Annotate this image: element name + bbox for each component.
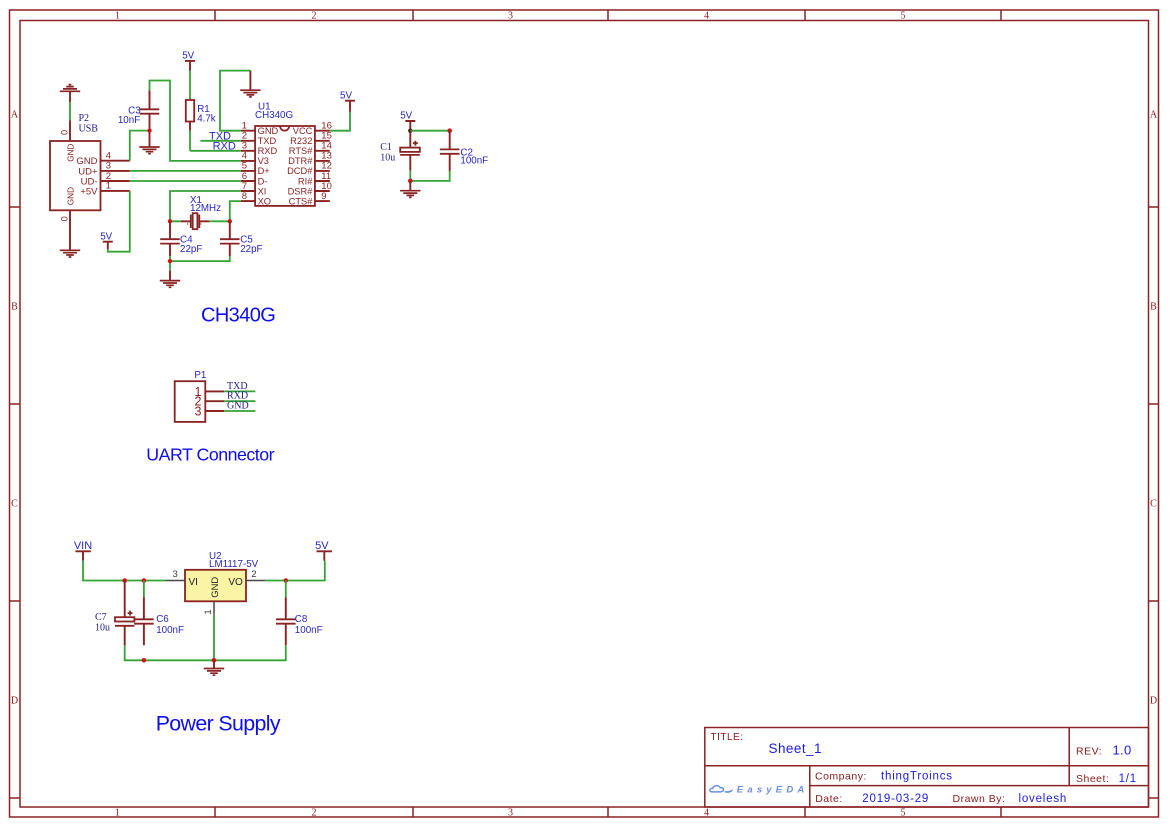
svg-text:2019-03-29: 2019-03-29 [862,793,929,805]
X1 value label [190,203,221,214]
svg-text:RI#: RI# [298,176,313,186]
svg-text:5V: 5V [400,110,412,121]
svg-text:C: C [11,499,18,510]
svg-text:10u: 10u [95,623,110,634]
wire (XI to crystal left) [170,191,241,221]
ground (below C3) [139,147,159,154]
node TXD label (P1) [227,381,248,392]
wire (C4/C5 bottoms) [170,256,230,270]
row tick marks left [10,207,21,798]
column tick marks bottom [215,807,1001,817]
svg-text:GND: GND [67,144,76,162]
svg-text:2: 2 [312,11,317,22]
capacitor C7 polarized [115,581,134,646]
wire (V3 to C3 top) [150,81,241,161]
C1 refdes label [380,142,392,153]
svg-text:1.0: 1.0 [1113,742,1132,757]
svg-text:Drawn By:: Drawn By: [953,793,1006,805]
VIN flag [74,540,92,561]
U1 refdes label [258,102,271,113]
svg-text:5V: 5V [182,50,194,61]
column numbers top [115,11,906,22]
svg-text:XO: XO [258,196,271,206]
wire (VIN down to input rail) [83,561,165,581]
row letters right [1150,110,1158,707]
svg-text:5V: 5V [315,540,329,552]
capacitor C3 [140,90,160,147]
svg-text:P2: P2 [79,113,90,124]
svg-text:2: 2 [312,808,317,819]
P1 refdes label [194,370,206,381]
svg-text:Power Supply: Power Supply [156,712,281,736]
svg-text:A: A [11,110,19,121]
svg-text:C: C [1150,499,1157,510]
ground (PSU) [204,660,224,675]
svg-text:D: D [11,696,18,707]
ground (above USB P2) [60,85,80,102]
junction (C4 bottom rail) [168,259,172,263]
regulator U2 LM1117-5V [165,569,265,615]
svg-text:1: 1 [106,181,111,192]
svg-text:5V: 5V [100,231,112,242]
svg-text:8: 8 [242,191,247,202]
node GND label (P1) [227,401,249,412]
wire (USB top pin to ground) [69,102,71,121]
svg-text:REV:: REV: [1076,746,1102,758]
svg-text:R232: R232 [290,136,312,146]
wire RXD net [190,150,241,152]
svg-text:3: 3 [508,808,513,819]
svg-text:TXD: TXD [258,136,277,146]
wire (5V rail to C2 top) [410,130,449,132]
5V flag (PSU output) [315,540,332,561]
C6 value label [156,625,184,636]
svg-text:4: 4 [704,808,709,819]
svg-text:Date:: Date: [815,793,843,805]
wire (USB pin4 GND up to C3 junction) [130,131,150,161]
svg-text:12MHz: 12MHz [190,203,221,214]
junction (crystal left) [168,219,172,223]
svg-text:C6: C6 [156,614,169,625]
Sheet value [1119,773,1137,785]
wire (XO to crystal right) [230,201,241,221]
junction (C3 bottom) [147,128,151,132]
wire (5V to R1 top) [189,71,191,101]
C4 refdes label [180,235,193,246]
node TXD label [209,130,231,142]
title label [711,732,744,743]
U2 value label [209,559,259,570]
resistor R1 [186,100,194,131]
svg-text:C7: C7 [95,612,107,623]
section title CH340G [201,305,275,327]
U2 refdes label [209,551,222,562]
C7 refdes label [95,612,107,623]
IC U1 CH340G body [255,126,315,206]
C7 value label [95,623,110,634]
5V flag (VCC) [340,90,355,111]
Date value [862,793,929,805]
row letters left [11,110,19,707]
sheet title value [769,741,822,756]
svg-text:3: 3 [195,404,202,418]
svg-text:V3: V3 [258,156,269,166]
U1 left pin numbers [242,121,247,202]
ground (U1 pin1) [240,71,260,97]
U1 right pin lines 9-16 [315,131,330,201]
Company value [881,770,953,782]
wire GND (P1 pin3) [224,410,255,412]
C5 refdes label [240,235,253,246]
REV value [1113,742,1132,757]
wire (C1 bottom to C2 bottom) [410,171,449,181]
U1 right pin names [287,126,313,206]
title block outline [705,728,1149,808]
svg-text:EasyEDA: EasyEDA [737,785,809,796]
capacitor C4 [160,221,180,256]
svg-text:CH340G: CH340G [255,110,293,121]
wire D+ net [130,170,241,172]
capacitor C2 [440,131,460,171]
svg-text:10nF: 10nF [118,115,140,126]
svg-text:C8: C8 [295,614,308,625]
svg-text:TITLE:: TITLE: [711,732,744,743]
U1 left pin names [258,126,279,206]
5V flag (USB +5V) [100,231,113,249]
svg-text:UART Connector: UART Connector [146,445,274,465]
X1 refdes label [190,195,202,206]
C6 refdes label [156,614,169,625]
C8 refdes label [295,614,308,625]
wire (U1 pin1 GND loop) [220,71,250,131]
svg-text:VIN: VIN [74,540,92,552]
svg-text:5V: 5V [340,90,352,101]
svg-text:4: 4 [704,11,709,22]
svg-text:RTS#: RTS# [289,146,313,156]
svg-text:LM1117-5V: LM1117-5V [209,559,259,570]
svg-text:USB: USB [79,124,99,135]
junction (C8 tap) [284,578,289,583]
ground (below C4/C5 rail) [160,270,180,287]
U1 value label CH340G [255,110,293,121]
column numbers bottom [115,808,906,819]
svg-text:DSR#: DSR# [288,186,314,196]
junction (C1 bottom) [408,179,413,184]
column tick marks top [215,10,1001,21]
section title UART Connector [146,445,274,465]
svg-text:B: B [1150,302,1157,313]
svg-text:RXD: RXD [258,146,278,156]
svg-text:GND: GND [258,126,279,136]
svg-text:22pF: 22pF [180,244,202,255]
Company label [815,770,867,782]
node RXD label [213,141,236,153]
svg-text:B: B [11,302,18,313]
C2 refdes label [460,147,473,158]
capacitor C8 [276,581,296,646]
USB value label [79,124,99,135]
U1 right pin numbers [321,121,332,202]
wire D- net [130,180,241,182]
svg-text:+5V: +5V [80,186,98,197]
svg-text:VCC: VCC [293,126,313,136]
C1 value label [380,153,395,164]
svg-text:P1: P1 [194,370,206,381]
Drawn By value [1019,793,1068,805]
svg-text:DCD#: DCD# [287,166,313,176]
svg-text:0: 0 [60,216,70,221]
svg-text:100nF: 100nF [295,625,323,636]
svg-text:lovelesh: lovelesh [1019,793,1068,805]
junction (crystal right) [228,219,232,223]
svg-text:DTR#: DTR# [288,156,313,166]
svg-text:Sheet:: Sheet: [1076,773,1109,785]
Drawn By label [953,793,1006,805]
svg-text:CH340G: CH340G [201,305,275,327]
C3 value label [118,115,140,126]
svg-text:VI: VI [189,577,198,588]
svg-text:10u: 10u [380,153,395,164]
svg-text:9: 9 [321,191,326,202]
wire (ground rail) [125,615,286,661]
junction (C2 top) [447,128,452,133]
wire (VO to 5V flag) [265,561,325,581]
svg-text:Sheet_1: Sheet_1 [769,741,822,756]
svg-text:RXD: RXD [213,141,236,153]
svg-text:D: D [1150,696,1157,707]
junction (C1 top, dark) [408,129,412,133]
wire RXD (P1 pin2) [224,400,255,402]
5V flag (above C1) [400,110,415,130]
C8 value label [295,625,323,636]
Sheet label [1076,773,1109,785]
svg-text:VO: VO [228,577,243,588]
svg-text:GND: GND [227,401,249,412]
svg-text:2: 2 [251,569,256,580]
P2 refdes label [79,113,90,124]
crystal X1 [170,213,230,229]
svg-text:0: 0 [60,130,70,135]
svg-text:D+: D+ [258,166,270,176]
svg-text:CTS#: CTS# [289,196,314,206]
svg-text:thingTroincs: thingTroincs [881,770,953,782]
svg-text:4.7k: 4.7k [197,114,216,125]
capacitor C6 [134,581,154,646]
5V flag (above R1) [182,50,195,70]
svg-text:D-: D- [258,176,268,186]
ground (below USB P2) [60,250,80,257]
C2 value label [460,156,488,167]
svg-text:1: 1 [115,11,120,22]
svg-text:1/1: 1/1 [1119,773,1137,785]
C3 refdes label [128,106,141,117]
R1 value label [197,114,216,125]
connector P1 [175,381,225,422]
R1 refdes label [197,104,210,115]
C5 value label [240,244,262,255]
svg-text:1: 1 [203,609,214,614]
section title Power Supply [156,712,281,736]
C4 value label [180,244,202,255]
junction (C7 tap) [122,578,127,583]
node RXD label (P1) [227,391,248,402]
junction (U2 GND bottom) [212,658,217,663]
svg-text:100nF: 100nF [156,625,184,636]
svg-text:1: 1 [115,808,120,819]
capacitor C1 polarized [400,131,420,171]
EasyEDA logo [710,785,809,796]
wire (U1 pin16 VCC to 5V) [330,112,350,131]
REV label [1076,746,1102,758]
svg-text:22pF: 22pF [240,244,262,255]
capacitor C5 [220,221,240,256]
svg-text:3: 3 [508,11,513,22]
U1 left pin lines 1-8 [241,131,255,201]
wire (5V flag to USB pin1) [108,191,130,252]
svg-text:100nF: 100nF [460,156,488,167]
wire TXD (P1 pin1) [224,390,255,392]
svg-text:5: 5 [901,808,906,819]
junction (C6 bottom) [142,658,147,663]
svg-text:3: 3 [173,569,178,580]
junction (C6 tap) [142,578,147,583]
svg-text:GND: GND [67,187,76,205]
wire (R1 bottom to RXD net) [189,130,191,150]
svg-text:Company:: Company: [815,770,867,782]
svg-text:GND: GND [209,577,220,598]
wire TXD net [200,140,240,142]
svg-text:A: A [1150,110,1158,121]
svg-text:5: 5 [901,11,906,22]
ground (below C1) [400,181,420,198]
Date label [815,793,843,805]
row tick marks right [1149,207,1160,798]
USB connector P2 [50,121,130,251]
svg-text:XI: XI [258,186,267,196]
